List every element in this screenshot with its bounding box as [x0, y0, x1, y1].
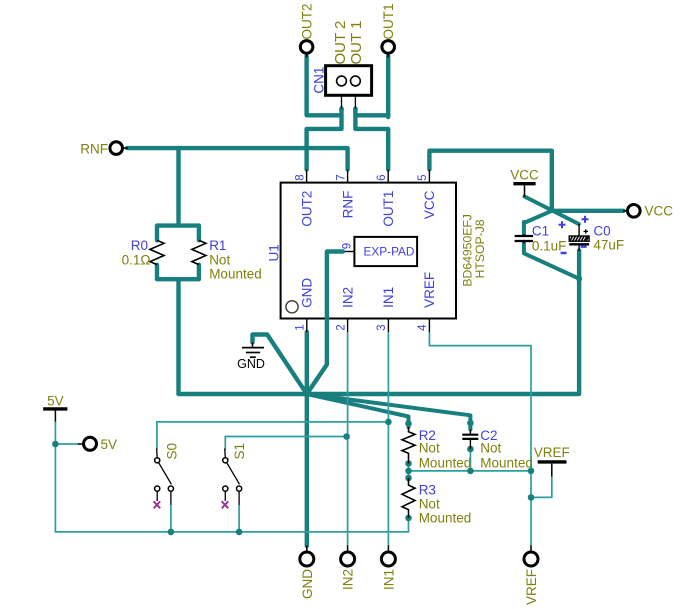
C0 minus mark: [581, 245, 587, 248]
wire 5V terminal link: [55, 443, 78, 445]
svg-text:OUT1: OUT1: [381, 3, 396, 39]
node VREF on horizontal: [528, 468, 535, 475]
svg-text:VCC: VCC: [422, 190, 437, 219]
svg-text:Mounted: Mounted: [480, 455, 533, 470]
pin 8 stub: [306, 170, 308, 183]
C0 small plus: [584, 229, 588, 233]
svg-text:4: 4: [417, 324, 429, 331]
capacitor C0: [569, 216, 624, 253]
wire C0 bottom to bus: [577, 251, 581, 395]
junction node C0 C1 bottom: [576, 276, 582, 282]
junction node CN1 pin2: [353, 107, 358, 112]
node R2 R3 on horizontal: [405, 468, 412, 475]
wire S0 pole to 5V rail: [170, 505, 172, 532]
svg-text:VCC: VCC: [645, 204, 674, 219]
svg-text:IN1: IN1: [381, 569, 396, 590]
IC GND index circle: [286, 301, 298, 313]
svg-text:2: 2: [335, 324, 347, 330]
pin 1 stub: [306, 319, 308, 333]
wire RNF horizontal: [127, 148, 348, 169]
no-connect X S0: [154, 501, 161, 508]
terminal RNF: [80, 141, 128, 156]
wire pin 2 to IN2 connector: [347, 332, 349, 546]
pin 7 stub: [347, 170, 349, 183]
wire GND symbol to junction: [253, 335, 307, 395]
switch S1: [222, 443, 248, 508]
pin 3 stub: [387, 319, 389, 333]
node R3 bottom: [405, 515, 412, 522]
connector CN1: [312, 21, 372, 109]
svg-text:S0: S0: [165, 443, 180, 460]
pin 5 stub: [428, 170, 430, 183]
svg-text:Mounted: Mounted: [209, 267, 262, 282]
node S0 on IN1: [385, 419, 392, 426]
capacitor C2: [462, 428, 533, 470]
svg-text:47uF: 47uF: [593, 237, 624, 252]
wire R2 bottom segment: [408, 464, 410, 478]
wire EXP-PAD pin 9: [307, 252, 343, 395]
svg-text:C1: C1: [532, 224, 549, 239]
wire 5V rail: [55, 421, 408, 532]
wire pin 1 to GND connector: [305, 332, 309, 546]
svg-text:R0: R0: [131, 238, 148, 253]
svg-text:5V: 5V: [47, 393, 64, 408]
svg-text:Mounted: Mounted: [419, 455, 472, 470]
svg-text:VCC: VCC: [510, 167, 539, 182]
terminal OUT1: [381, 3, 396, 57]
pin 9 stub: [343, 251, 354, 253]
wire pin 4 to VREF connector: [429, 332, 531, 546]
node 5V tap: [52, 441, 59, 448]
switch S0: [154, 443, 180, 508]
svg-text:HTSOP-J8: HTSOP-J8: [473, 219, 487, 278]
wire pin 5 to VCC junction: [429, 151, 623, 211]
svg-text:RNF: RNF: [80, 141, 108, 156]
svg-text:S1: S1: [232, 443, 247, 460]
node R2 bottom: [405, 460, 412, 467]
node R2 top: [405, 420, 412, 427]
no-connect X S1: [222, 501, 229, 508]
wire R0R1 to bus: [176, 279, 180, 394]
pin 4 stub: [428, 319, 430, 333]
node S1 on IN2: [343, 433, 350, 440]
wire pin 3 to IN1 connector: [387, 332, 389, 546]
svg-text:R1: R1: [209, 238, 226, 253]
svg-text:OUT1: OUT1: [381, 191, 396, 227]
op IC U1 BD64950EFJ: [266, 170, 487, 333]
svg-text:OUT2: OUT2: [299, 191, 314, 227]
resistor R0: [122, 238, 164, 267]
terminal 5V: [78, 437, 117, 452]
svg-text:5V: 5V: [101, 437, 118, 452]
EXP-PAD box: [354, 237, 417, 266]
wire S1 control to IN2 net: [225, 437, 346, 451]
node C2 top: [467, 420, 474, 427]
wire C1 top vertical: [522, 222, 526, 234]
wire VCC bar to C0 top diagonal: [525, 197, 579, 225]
svg-text:Not: Not: [419, 441, 440, 456]
resistor R3: [402, 478, 471, 526]
pin 2 stub: [347, 319, 349, 333]
C1 minus mark: [561, 252, 567, 255]
terminal OUT2: [299, 3, 314, 57]
svg-text:6: 6: [376, 174, 388, 180]
svg-text:U1: U1: [266, 244, 281, 261]
svg-text:0.1Ω: 0.1Ω: [122, 252, 151, 267]
svg-text:OUT 2: OUT 2: [332, 21, 349, 65]
svg-text:IN2: IN2: [340, 287, 355, 308]
power symbol 5V: [43, 393, 67, 421]
C1 plus mark: [559, 221, 566, 228]
svg-text:GND: GND: [300, 569, 315, 599]
svg-text:5: 5: [417, 174, 429, 180]
junction node center: [304, 391, 310, 397]
svg-text:Mounted: Mounted: [419, 511, 472, 526]
capacitor C1: [515, 221, 567, 253]
wire R2 C2 VREF horizontal: [409, 470, 532, 472]
wire R0R1 top bracket: [157, 226, 199, 241]
svg-text:IN2: IN2: [341, 569, 356, 590]
svg-text:OUT2: OUT2: [299, 3, 314, 39]
svg-text:OUT 1: OUT 1: [348, 21, 365, 65]
power symbol VREF: [534, 445, 570, 477]
svg-text:VREF: VREF: [534, 445, 570, 460]
wire junction to C2 diagonal: [307, 394, 471, 430]
svg-text:VREF: VREF: [422, 272, 437, 308]
wire OUT1 to CN1 and pin 6: [355, 56, 388, 170]
wire C1 top to VCC junction diagonal: [524, 211, 552, 223]
wire ground bus horizontal: [179, 392, 579, 396]
svg-text:Not: Not: [480, 441, 501, 456]
svg-text:IN1: IN1: [381, 287, 396, 308]
svg-text:RNF: RNF: [340, 191, 355, 219]
resistor R1: [192, 238, 262, 281]
wire R0R1 bottom bracket: [157, 265, 199, 279]
svg-text:7: 7: [335, 174, 347, 180]
node VREF bar tap: [528, 494, 535, 501]
junction node CN1 pin1: [339, 107, 344, 112]
node C2 bottom: [467, 446, 474, 453]
wire VREF bar to net: [531, 476, 552, 497]
svg-text:3: 3: [376, 324, 388, 330]
pin 6 stub: [387, 170, 389, 183]
svg-text:VREF: VREF: [524, 569, 539, 605]
svg-text:8: 8: [294, 174, 306, 180]
svg-text:1: 1: [295, 324, 307, 330]
power symbol VCC: [510, 167, 539, 197]
svg-text:GND: GND: [237, 357, 265, 371]
node S0 on 5V rail: [168, 529, 175, 536]
resistor R2: [402, 427, 471, 470]
svg-text:R3: R3: [419, 483, 436, 498]
wire C2 bottom segment: [469, 449, 471, 471]
svg-text:0.1uF: 0.1uF: [532, 239, 567, 254]
connector GND bottom: [300, 546, 315, 600]
wire R0R1 feed vertical: [176, 148, 180, 226]
wire OUT2 to CN1 and pin 8: [307, 56, 342, 170]
svg-text:EXP-PAD: EXP-PAD: [364, 245, 415, 259]
svg-text:9: 9: [342, 243, 354, 249]
connector IN1 bottom: [381, 546, 396, 591]
wire S0 control to IN1 net: [157, 422, 389, 450]
svg-text:CN1: CN1: [312, 67, 327, 94]
ground symbol GND: [237, 343, 265, 372]
C0 plus mark: [582, 216, 589, 223]
connector VREF bottom: [524, 546, 539, 606]
svg-text:Not: Not: [419, 497, 440, 512]
wire junction to R2 diagonal: [307, 394, 409, 427]
svg-text:GND: GND: [300, 278, 315, 308]
node C2 on horizontal: [467, 468, 474, 475]
connector IN2 bottom: [341, 546, 356, 591]
svg-text:Not: Not: [209, 252, 230, 267]
terminal VCC: [623, 204, 673, 219]
wire C1 bottom to C0 bottom: [524, 242, 579, 279]
node R3 top: [405, 475, 412, 482]
wire S1 pole to 5V rail: [238, 505, 240, 532]
node S1 on 5V rail: [236, 529, 243, 536]
